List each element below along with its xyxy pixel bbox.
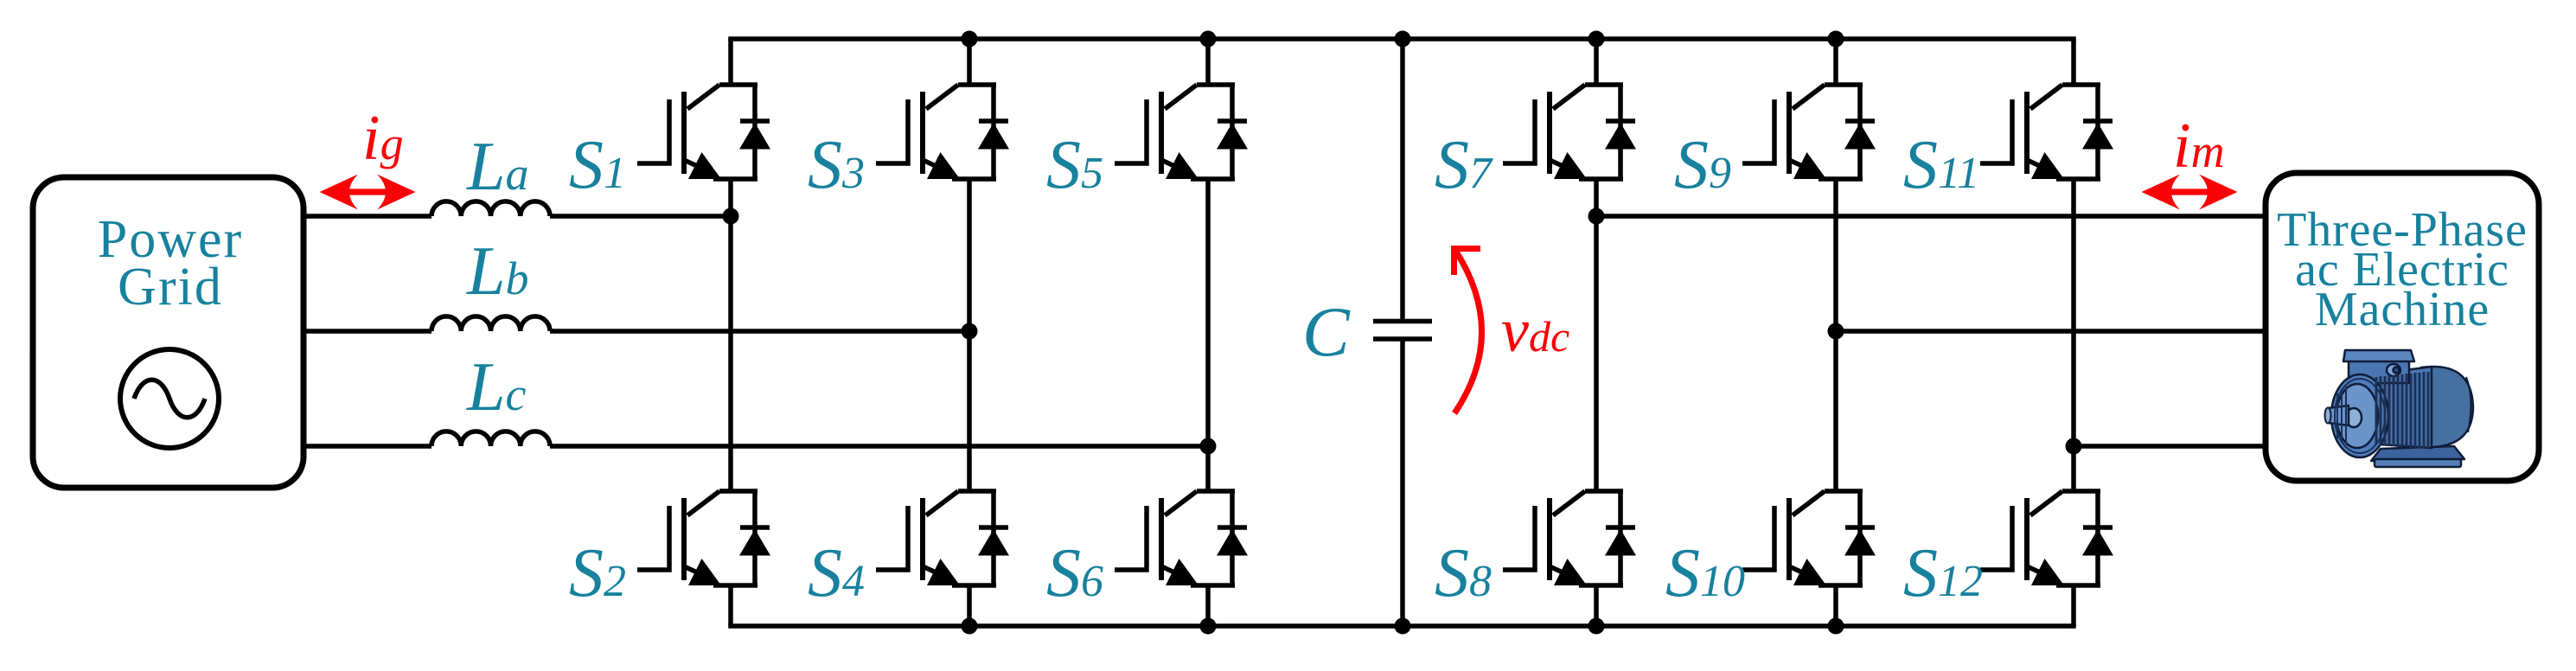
node top S7: [1588, 31, 1605, 48]
wire phase a right: [1596, 214, 2266, 219]
transistor S9: [1742, 85, 1876, 179]
transistor S7: [1503, 85, 1636, 179]
transistor S5: [1115, 85, 1248, 179]
motor icon: [2325, 350, 2474, 467]
svg-text:im: im: [2173, 111, 2225, 182]
inductor Lc: [431, 431, 550, 446]
node bottom S5: [1200, 618, 1217, 635]
svg-text:S7: S7: [1435, 127, 1493, 203]
inductor Lb: [431, 316, 550, 331]
current arrow ig: [320, 175, 416, 210]
node bottom S7: [1588, 618, 1605, 635]
svg-text:S1: S1: [569, 127, 626, 203]
node motor c: [2066, 438, 2082, 455]
wire phase c left: [304, 444, 1208, 449]
node bottom S9: [1828, 618, 1844, 635]
node phase c: [1200, 438, 1217, 455]
svg-text:S5: S5: [1046, 127, 1103, 203]
svg-text:S11: S11: [1903, 127, 1979, 203]
bottom dc bus: [731, 623, 2074, 629]
node top S3: [962, 31, 978, 48]
current arrow im: [2142, 175, 2238, 210]
transistor S10: [1742, 491, 1876, 585]
wire phase b right: [1836, 329, 2266, 334]
svg-text:S4: S4: [808, 535, 865, 611]
wire phase b left: [304, 329, 969, 334]
transistor S8: [1503, 491, 1636, 585]
svg-text:C: C: [1302, 292, 1351, 371]
wire leg S11/S12: [2071, 39, 2076, 626]
node top C: [1395, 31, 1411, 48]
transistor S2: [637, 491, 770, 585]
motor box: [2266, 173, 2539, 481]
node phase a: [723, 208, 739, 225]
wire leg S9/S10: [1833, 39, 1838, 626]
svg-text:S2: S2: [569, 535, 626, 611]
wire phase a left: [304, 214, 731, 219]
wire leg S1/S2: [728, 39, 733, 626]
wire phase c right: [2074, 444, 2266, 449]
transistor S6: [1115, 491, 1248, 585]
power grid box: [33, 177, 304, 488]
svg-text:Lc: Lc: [466, 349, 527, 425]
inductor La: [431, 201, 550, 216]
svg-text:Lb: Lb: [466, 233, 529, 310]
transistor S3: [876, 85, 1009, 179]
ac source V1: [120, 349, 219, 448]
wire leg S7/S8: [1594, 39, 1599, 626]
svg-text:S12: S12: [1903, 535, 1983, 611]
capacitor C: [1400, 39, 1405, 626]
node motor b: [1828, 323, 1844, 340]
transistor S4: [876, 491, 1009, 585]
node bottom S3: [962, 618, 978, 635]
transistor S12: [1980, 491, 2113, 585]
svg-text:S10: S10: [1665, 535, 1745, 611]
voltage arrow vdc: [1454, 252, 1482, 413]
node bottom C: [1395, 618, 1411, 635]
svg-text:vdc: vdc: [1501, 296, 1569, 365]
svg-text:La: La: [466, 129, 529, 205]
svg-text:ig: ig: [362, 103, 404, 174]
wire leg S3/S4: [967, 39, 972, 626]
transistor S11: [1980, 85, 2113, 179]
node motor a: [1588, 208, 1605, 225]
svg-text:S6: S6: [1046, 535, 1103, 611]
wire leg S5/S6: [1205, 39, 1211, 626]
svg-text:S8: S8: [1435, 535, 1492, 611]
transistor S1: [637, 85, 770, 179]
node top S5: [1200, 31, 1217, 48]
svg-text:Machine: Machine: [2315, 283, 2490, 336]
svg-text:S3: S3: [808, 127, 865, 203]
node phase b: [962, 323, 978, 340]
node top S9: [1828, 31, 1844, 48]
svg-text:S9: S9: [1674, 127, 1731, 203]
top dc bus: [731, 36, 2074, 42]
svg-text:Grid: Grid: [118, 258, 223, 316]
